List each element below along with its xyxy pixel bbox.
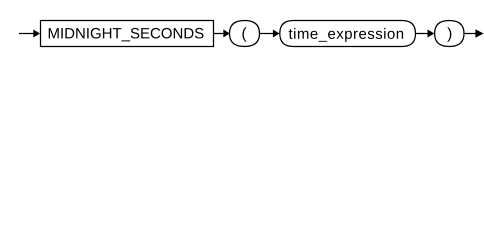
label ) bbox=[447, 27, 451, 41]
wire ( to time_expression bbox=[260, 33, 275, 35]
wire time_expression to ) bbox=[416, 33, 430, 35]
arrowhead into MIDNIGHT_SECONDS box bbox=[33, 30, 40, 38]
arrowhead into time_expression bbox=[273, 30, 280, 38]
arrowhead into ) bbox=[428, 30, 435, 38]
arrowhead exit bbox=[475, 29, 483, 37]
label ( bbox=[242, 27, 246, 41]
wire box to ( bbox=[214, 33, 225, 35]
terminal ( oval bbox=[230, 21, 260, 47]
stadium time_expression bbox=[280, 21, 416, 47]
terminal ) oval bbox=[435, 21, 464, 47]
arrowhead into ( bbox=[223, 30, 230, 38]
label MIDNIGHT_SECONDS bbox=[49, 28, 204, 41]
box MIDNIGHT_SECONDS bbox=[41, 21, 214, 47]
wire start segment bbox=[19, 33, 35, 35]
label time_expression bbox=[289, 28, 403, 42]
wire ) to exit bbox=[464, 33, 477, 35]
